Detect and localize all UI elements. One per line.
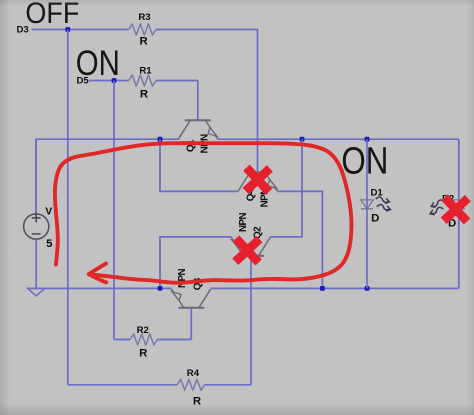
red X over Q4 [246, 168, 270, 192]
svg-text:R: R [193, 396, 201, 408]
svg-text:R: R [139, 36, 147, 48]
wire: R4 leads [68, 384, 177, 386]
LED D2 [453, 200, 466, 209]
resistor R4 [177, 379, 204, 390]
wire: top rail right segment (Q1 emitter to right rail) [218, 138, 459, 140]
svg-text:R4: R4 [187, 368, 200, 379]
wire: Q2 base down to R4 right corner [250, 256, 252, 385]
wire: D3 input row to R3 [32, 29, 129, 31]
voltage source V1 5V [35, 139, 37, 214]
wire: bottom rail right segment (Q3 collector to right rail) [211, 287, 459, 289]
ground [28, 288, 45, 296]
svg-text:D: D [371, 213, 379, 225]
svg-text:NPN: NPN [177, 268, 188, 288]
wire: branch from top rail down to Q2 collector [271, 139, 303, 237]
wire: Q4 emitter right and down to bottom rail [278, 191, 323, 288]
transistor Q3 [178, 307, 204, 309]
wire: V source bottom to ground [35, 239, 37, 288]
wire: right rail with LED D2 [458, 139, 460, 288]
svg-text:R2: R2 [137, 325, 149, 336]
svg-text:ON: ON [76, 43, 120, 82]
node: bottom rail junction at Q2-emitter branch [158, 286, 163, 291]
resistor R1 [129, 75, 156, 86]
svg-text:ON: ON [341, 140, 388, 183]
red X over D2 [444, 197, 468, 221]
node D3 junction [65, 27, 70, 32]
wire: Q3 base down to R2 right corner [190, 308, 192, 340]
wire: bottom rail left segment (ground to Q3 emitter) [28, 287, 172, 289]
wire: top rail left segment (V+ to Q1 collector) [36, 139, 178, 214]
svg-text:R1: R1 [139, 65, 152, 76]
wire: branch Q1-collector down and right to Q4 base-drive [160, 139, 238, 191]
wire: R3 to Q4 base corner [156, 30, 258, 173]
resistor R2 [130, 334, 157, 345]
svg-text:NPN: NPN [238, 212, 249, 232]
svg-text:V: V [45, 206, 52, 218]
LED D1 [366, 139, 368, 288]
node: bottom rail junction at Q4-emitter branch [320, 286, 325, 291]
node: top rail junction at D1 [365, 137, 370, 142]
transistor Q1 [185, 119, 211, 121]
wire: R2 leads [114, 339, 130, 341]
node: top rail junction at Q1 collector branch [158, 137, 163, 142]
wire: Q2 emitter left and down to bottom rail [160, 237, 231, 289]
transistor Q4 [245, 171, 271, 173]
red marker arrowhead [89, 264, 106, 275]
svg-text:OFF: OFF [25, 0, 79, 31]
svg-text:5: 5 [46, 238, 53, 250]
node: bottom rail junction at D1 [365, 286, 370, 291]
red marker loop annotation [55, 143, 352, 283]
wire: D5 vertical line down to R2 row [113, 81, 115, 340]
svg-text:Q1: Q1 [186, 139, 197, 152]
transistor Q2 [238, 255, 264, 257]
svg-text:Q2: Q2 [253, 226, 264, 239]
node D5 junction [112, 78, 117, 83]
wire: D5 input row to R1 [89, 80, 129, 82]
wire: D3 vertical line down to R4 row [67, 30, 69, 385]
svg-text:R3: R3 [138, 12, 150, 23]
svg-text:R: R [140, 89, 148, 101]
wire: R1 to Q1 base corner [156, 81, 198, 121]
node: top rail junction at Q2 collector branch [300, 137, 305, 142]
svg-text:D1: D1 [371, 188, 384, 199]
svg-text:R: R [139, 348, 147, 360]
red X over Q2 [235, 238, 259, 262]
resistor R3 [129, 24, 156, 35]
